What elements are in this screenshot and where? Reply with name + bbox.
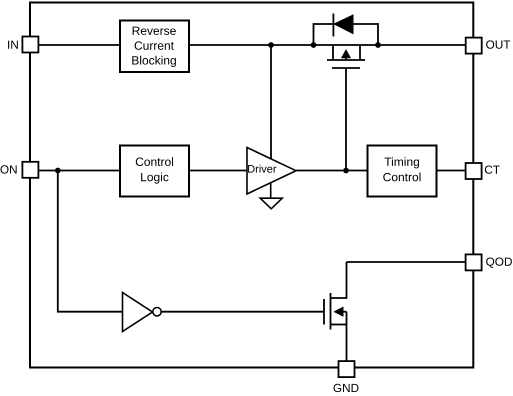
junction node: rail / driver supply xyxy=(268,42,274,48)
QOD FET Q2: drain lead xyxy=(331,262,347,298)
body diode cathode bar xyxy=(332,14,334,37)
block: Control Logic xyxy=(120,146,189,197)
block: Timing Control xyxy=(368,146,437,197)
pin ON xyxy=(0,162,38,178)
pin IN xyxy=(8,37,38,53)
QOD FET Q2: body arrow (pointing left) xyxy=(334,307,347,317)
junction node: ON line / inverter branch xyxy=(55,168,61,174)
block: Reverse Current Blocking xyxy=(120,21,189,73)
pin GND xyxy=(333,361,358,392)
junction node: driver output / pass FET gate xyxy=(343,168,349,174)
wire: QOD FET drain to QOD pin xyxy=(347,261,466,263)
pin QOD xyxy=(466,254,512,270)
wire: Control Logic to Driver input xyxy=(189,170,247,172)
wire: ON branch down to inverter input xyxy=(58,171,123,312)
inverter U2 (triangle with bubble) xyxy=(123,293,162,332)
pin CT xyxy=(466,163,500,179)
pass FET Q1: drain lead xyxy=(332,45,334,60)
pass FET Q1: source lead xyxy=(359,45,361,60)
wire: ON pin to Control Logic xyxy=(38,170,120,172)
QOD FET Q2: channel bar xyxy=(330,293,332,330)
pass FET Q1: gate bar xyxy=(332,67,360,69)
outer box (IC boundary) xyxy=(30,3,473,368)
pin OUT xyxy=(466,38,511,54)
wire: pass FET gate down to driver output xyxy=(345,68,347,171)
pass FET Q1: body arrow (pointing up) xyxy=(341,50,350,61)
wire: inverter output to QOD FET gate xyxy=(161,311,323,313)
junction node: rail / diode right xyxy=(375,42,381,48)
ground (analog ground triangle under driver) xyxy=(260,198,282,209)
QOD FET Q2: gate bar xyxy=(323,299,325,325)
wire: Driver output to Timing Control xyxy=(296,170,368,172)
wire: top rail down to Driver supply xyxy=(270,45,272,160)
QOD FET Q2: source lead xyxy=(331,324,347,326)
junction node: rail / diode left xyxy=(311,42,317,48)
wire: QOD FET source down to GND pin xyxy=(346,312,348,362)
wire: Timing Control to CT pin xyxy=(437,170,466,172)
wire: IN pin to Reverse Current Blocking input xyxy=(38,44,120,46)
body diode of pass FET (wire loop) xyxy=(314,24,379,45)
pass FET Q1: channel line xyxy=(327,59,365,61)
op-amp style Driver triangle xyxy=(247,148,296,195)
body diode triangle (anode, pointing left) xyxy=(334,15,353,34)
wire: driver ground stub xyxy=(270,183,272,198)
wire: top rail from Reverse Current Blocking output to OUT pin xyxy=(189,44,466,46)
